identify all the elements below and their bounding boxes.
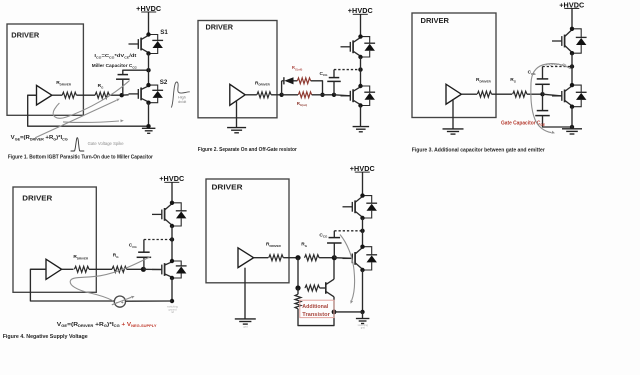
wire Q9 collector to gate node (fig5)	[333, 260, 335, 279]
+HVDC supply label (fig4)	[159, 174, 184, 183]
negative supply voltage source V1 (fig4)	[114, 296, 125, 307]
bottom IGBT Q8 (fig5) freewheeling diode	[363, 247, 378, 270]
wire RE to emitter return (fig5)	[298, 288, 334, 326]
wire amp output (fig3)	[461, 93, 477, 95]
gray current loop arrow (fig1)	[53, 81, 129, 119]
svg-text:+HVDC: +HVDC	[348, 6, 373, 15]
wire stub (fig5)	[304, 257, 306, 259]
wire midpoint rail (fig2)	[360, 57, 362, 86]
wire amp to ground (fig2)	[236, 100, 238, 127]
wire CCG top stub (fig4)	[143, 240, 145, 253]
wire CCG bottom to gate node (fig1)	[122, 79, 124, 95]
wire midpoint rail (fig5)	[362, 218, 364, 247]
gray return arrowhead (fig1)	[120, 119, 123, 122]
svg-text:Transistor: Transistor	[302, 312, 330, 318]
bottom IGBT Q4 (fig3)	[552, 86, 572, 106]
wire CCG bottom to gate wire (fig2)	[333, 81, 335, 94]
bottom IGBT Q2 (fig2)	[341, 87, 361, 105]
wire RG to gate node (fig4)	[127, 268, 144, 270]
wire RDRIVER to split node (fig2)	[271, 94, 282, 96]
gray arrowhead (fig3)	[551, 131, 555, 134]
label RDRIVER (fig4)	[73, 254, 89, 260]
label RG (fig5)	[301, 242, 307, 248]
driver IC box U1 (fig1)	[7, 24, 83, 115]
top IGBT Q3 (fig3)	[552, 30, 572, 53]
resistor RG (fig1)	[95, 92, 109, 98]
collector rail tap junction (fig1)	[146, 68, 150, 72]
label VGE equation red part (fig4)	[122, 322, 158, 328]
IGBT S2 (fig1) collector node	[146, 83, 150, 87]
resistor RDRIVER (fig3)	[477, 91, 491, 97]
diode D1 off-branch (fig2)	[282, 77, 294, 84]
svg-text:High: High	[178, 96, 186, 100]
gate voltage spike symbol (fig1)	[71, 138, 85, 151]
wire gate return loop (fig1)	[28, 95, 149, 126]
wire midpoint rail (fig3)	[571, 53, 573, 85]
label VGE equation black part (fig4)	[57, 322, 121, 328]
svg-text:RG: RG	[510, 77, 516, 83]
dashed wire CCG to half-bridge midpoint (fig2)	[334, 69, 361, 71]
label RDRIVER (fig5)	[266, 242, 282, 248]
driver IC box U5 (fig5)	[206, 179, 289, 283]
wire CCG bottom to gate node (fig5)	[333, 243, 335, 258]
svg-text:RDRIVER: RDRIVER	[56, 80, 72, 86]
top IGBT Q3 (fig3) collector node	[570, 27, 574, 31]
svg-text:DRIVER: DRIVER	[421, 16, 450, 25]
resistor RDRIVER (fig1)	[62, 92, 76, 98]
bottom IGBT Q6 (fig4) emitter node	[170, 276, 174, 280]
label CCG (fig2)	[320, 71, 329, 77]
gray current path arrow (fig3)	[531, 64, 571, 133]
label RG (fig1)	[98, 83, 104, 89]
dashed wire CCG to midpoint (fig4)	[144, 239, 172, 241]
wire emitter rail down (fig5)	[362, 270, 364, 312]
half-bridge midpoint junction (fig3)	[570, 64, 574, 68]
wire RDRIVER to RG (fig1)	[76, 94, 95, 96]
ground rail junction (fig1)	[146, 124, 150, 128]
wire RG to gate node (fig1)	[109, 94, 121, 96]
svg-text:VGE=(RDRIVER +RG)*ICG: VGE=(RDRIVER +RG)*ICG	[57, 322, 121, 328]
wire amp output (fig5)	[254, 257, 269, 259]
IGBT S1 (fig1)	[129, 35, 149, 52]
caption Figure 4	[3, 334, 88, 340]
wire gate node to CGE (fig3)	[542, 94, 544, 110]
additional transistor Q9 (fig5)	[326, 279, 334, 297]
label switching ground tiny (fig4)	[167, 305, 178, 315]
svg-text:S1: S1	[160, 29, 168, 36]
caption Figure 2	[198, 147, 298, 153]
svg-text:RG(off): RG(off)	[292, 65, 303, 71]
wire to power ground (fig5)	[362, 312, 364, 318]
power ground symbol (fig5)	[356, 319, 370, 324]
top IGBT Q1 (fig2) freewheeling diode	[361, 37, 376, 57]
label gnd tiny (fig5)	[243, 324, 248, 328]
label gnd tiny (fig5 right)	[358, 324, 369, 330]
top IGBT Q7 (fig5) emitter node	[360, 216, 364, 220]
wire bottom IGBT emitter to ground (fig2)	[360, 106, 362, 127]
resistor RGon (fig2)	[298, 92, 311, 98]
svg-text:RDRIVER: RDRIVER	[266, 242, 282, 248]
svg-text:RDRIVER: RDRIVER	[255, 80, 271, 86]
bottom IGBT Q6 (fig4)	[152, 262, 172, 277]
svg-text:DRIVER: DRIVER	[212, 182, 244, 191]
wire CCG top stub (fig3)	[542, 67, 544, 79]
wire amp to ground (fig5)	[244, 268, 246, 319]
driver IC box U2 (fig2)	[198, 21, 277, 118]
top IGBT Q3 (fig3) freewheeling diode	[572, 29, 587, 53]
wire emitter down to return (fig4)	[171, 278, 173, 301]
wire +HVDC to top IGBT (fig4)	[171, 182, 173, 202]
wire split node to RGon (fig2)	[282, 94, 298, 96]
power ground symbol (fig2)	[353, 127, 370, 132]
IGBT S2 (fig1) emitter node	[146, 101, 150, 105]
wire RB to transistor base (fig5)	[320, 287, 326, 289]
wire midpoint rail (fig4)	[171, 226, 173, 261]
svg-text:RG(on): RG(on)	[297, 101, 307, 107]
svg-text:Additional: Additional	[302, 304, 328, 310]
gray spike arrowhead (fig1)	[116, 99, 120, 102]
svg-text:dv/dt: dv/dt	[178, 100, 187, 104]
wire emitter to ground (fig3)	[571, 107, 573, 129]
wire amp output (fig1)	[52, 94, 62, 96]
DRIVER label (fig4)	[22, 194, 53, 203]
svg-text:DRIVER: DRIVER	[22, 194, 53, 203]
dashed wire CCG to midpoint (fig3)	[543, 66, 573, 68]
Miller capacitor CCG (fig1)	[116, 75, 130, 80]
emitter return junction (fig5)	[360, 310, 364, 314]
top IGBT Q5 (fig4) emitter node	[170, 224, 174, 228]
wire RDRIVER to RG (fig3)	[492, 93, 513, 95]
IGBT S1 (fig1) freewheeling diode	[149, 35, 164, 54]
label CCG (fig4)	[129, 243, 138, 249]
svg-text:CCG: CCG	[129, 243, 138, 249]
DRIVER label (fig2)	[206, 23, 234, 32]
label RG (fig4)	[113, 253, 119, 259]
label CCG (fig3)	[528, 70, 537, 76]
gray arrowhead (fig5)	[350, 300, 353, 304]
wire RGoff to gate node (fig2)	[311, 81, 323, 95]
parasitic capacitor CCG (fig3)	[535, 79, 550, 84]
svg-text:RDRIVER: RDRIVER	[73, 254, 89, 260]
caption Figure 1	[8, 155, 154, 161]
+HVDC supply label (fig2)	[348, 6, 373, 15]
top IGBT Q1 (fig2) emitter node	[358, 55, 362, 59]
svg-text:ICG=CCG*dVCE/dt: ICG=CCG*dVCE/dt	[94, 53, 136, 59]
dashed wire CCG to midpoint (fig5)	[334, 230, 362, 232]
wire RGon to cap node (fig2)	[312, 94, 334, 96]
svg-text:DRIVER: DRIVER	[11, 30, 39, 39]
half-bridge midpoint junction (fig5)	[360, 229, 364, 233]
Q9 emitter junction (fig5)	[332, 310, 337, 315]
label S1 (fig1)	[160, 29, 168, 36]
gate node junction (fig3)	[540, 92, 544, 96]
bottom IGBT Q8 (fig5)	[343, 248, 363, 270]
wire source to emitter rail (fig4)	[126, 300, 173, 302]
DRIVER label (fig5)	[212, 182, 244, 191]
top IGBT Q5 (fig4) freewheeling diode	[172, 203, 187, 226]
wire Q9 emitter down (fig5)	[333, 297, 335, 312]
emitter rail junction (fig3)	[570, 125, 574, 129]
top IGBT Q3 (fig3) emitter node	[570, 51, 574, 55]
svg-text:Gate Voltage Spike: Gate Voltage Spike	[88, 141, 125, 146]
wire +HVDC to top IGBT (fig2)	[360, 15, 362, 37]
label Gate Capacitor CGE (fig3)	[501, 121, 546, 127]
wire node A down to node B (fig5)	[297, 258, 299, 288]
svg-text:gnd: gnd	[243, 324, 248, 328]
bottom IGBT Q2 (fig2) freewheeling diode	[361, 86, 376, 106]
top IGBT Q7 (fig5)	[343, 196, 363, 217]
bottom IGBT Q8 (fig5) collector node	[360, 245, 364, 249]
svg-text:RG: RG	[98, 83, 104, 89]
label VGE equation (fig1)	[11, 135, 68, 141]
label RG (fig3)	[510, 77, 516, 83]
label dv/dt (fig1)	[178, 100, 187, 104]
wire amp input feedback (fig4)	[30, 268, 46, 270]
gray current loop arrow (fig4)	[70, 257, 150, 301]
wire amp input feedback (fig1)	[28, 94, 37, 96]
gate node junction (fig1)	[120, 93, 124, 97]
svg-text:Figure 1. Bottom IGBT Parasiti: Figure 1. Bottom IGBT Parasitic Turn-On …	[8, 155, 154, 161]
gray scribble over dashed wire (fig3)	[546, 64, 567, 66]
label Gate Voltage Spike (fig1)	[88, 141, 125, 146]
wire gate node to S2 gate (fig1)	[122, 94, 129, 96]
wire amp output (fig2)	[245, 94, 257, 96]
svg-text:+HVDC: +HVDC	[350, 164, 375, 173]
emitter return junction (fig4)	[170, 299, 174, 303]
wire Q9 emitter to rail (fig5)	[334, 311, 363, 313]
resistor RDRIVER (fig5)	[269, 255, 284, 261]
bottom IGBT Q4 (fig3) emitter node	[570, 105, 574, 109]
wire +HVDC to top IGBT (fig5)	[362, 172, 364, 195]
wire S2 emitter to ground (fig1)	[148, 103, 150, 127]
wire CCG top stub (fig5)	[333, 231, 335, 238]
resistor RDRIVER (fig4)	[74, 266, 89, 272]
svg-text:RG: RG	[301, 242, 307, 248]
top IGBT Q5 (fig4)	[152, 204, 172, 226]
wire diode to RGoff (fig2)	[294, 80, 298, 82]
gray arrow through source (fig4)	[112, 297, 131, 305]
op-amp buffer A5 (fig5)	[238, 248, 254, 268]
label S2 (fig1)	[160, 79, 168, 86]
bottom IGBT Q2 (fig2) collector node	[358, 84, 362, 88]
wire split node up to off-branch (fig2)	[281, 81, 283, 95]
bottom IGBT Q2 (fig2) emitter node	[358, 103, 362, 107]
CCG tap junction (fig2)	[332, 93, 336, 97]
op-amp buffer A3 (fig3)	[446, 84, 461, 104]
svg-text:+HVDC: +HVDC	[136, 4, 161, 13]
op-amp buffer A2 (fig2)	[230, 84, 245, 105]
label RDRIVER (fig2)	[255, 80, 271, 86]
base resistor RB (fig5)	[305, 285, 320, 291]
wire gate lead to bottom IGBT (fig3)	[543, 94, 562, 96]
parasitic capacitor CCG (fig2)	[327, 78, 341, 82]
bottom IGBT Q4 (fig3) freewheeling diode	[572, 85, 587, 107]
split node junction (fig2)	[279, 93, 283, 97]
caption Figure 3	[412, 147, 546, 153]
IGBT S1 (fig1) emitter node	[146, 51, 150, 55]
svg-text:+HVDC: +HVDC	[159, 174, 184, 183]
half-bridge midpoint junction (fig4)	[170, 237, 174, 241]
IGBT S1 (fig1) collector node	[146, 32, 150, 36]
gray return current arrow (fig1)	[63, 121, 119, 123]
+HVDC supply label (fig1)	[136, 4, 161, 13]
svg-text:Figure 2. Separate On and Off-: Figure 2. Separate On and Off-Gate resis…	[198, 147, 298, 153]
wire stub2 (fig5)	[304, 287, 306, 289]
IGBT S2 (fig1) freewheeling diode	[149, 85, 164, 103]
+HVDC supply label (fig3)	[559, 0, 584, 9]
label CCG (fig5)	[319, 232, 328, 238]
top IGBT Q5 (fig4) collector node	[170, 201, 174, 205]
label High (fig1)	[178, 96, 186, 100]
svg-text:Miller Capacitor CCG: Miller Capacitor CCG	[92, 63, 138, 69]
top IGBT Q7 (fig5) collector node	[360, 193, 364, 197]
red annotation box Additional Transistor (fig5)	[300, 300, 334, 318]
svg-text:gnd: gnd	[361, 326, 366, 329]
label Miller Capacitor CCG (fig1)	[92, 63, 138, 69]
wire amp output (fig4)	[62, 268, 74, 270]
wire gate lead to bottom IGBT (fig4)	[143, 268, 161, 270]
top IGBT Q1 (fig2) collector node	[358, 34, 362, 38]
resistor RGoff (fig2)	[297, 78, 310, 84]
driver ground symbol (fig3)	[443, 129, 464, 134]
wire CCG bottom to gate node (fig4)	[143, 257, 145, 269]
svg-text:S2: S2	[160, 79, 168, 86]
op-amp buffer A1 (fig1)	[37, 85, 52, 105]
svg-text:Figure 3. Additional capacitor: Figure 3. Additional capacitor between g…	[412, 147, 546, 153]
DRIVER label (fig1)	[11, 30, 39, 39]
node B junction (fig5)	[295, 285, 300, 290]
resistor RG (fig4)	[112, 266, 127, 272]
power ground symbol (fig3)	[562, 129, 582, 134]
gray current path arrow (fig5)	[340, 235, 355, 301]
wire CGE to emitter rail (fig3)	[543, 116, 573, 127]
gate capacitor CGE (fig3)	[535, 111, 550, 116]
resistor RG (fig3)	[513, 91, 527, 97]
wire +HVDC to top IGBT (fig3)	[571, 9, 573, 29]
wire gate lead to bottom IGBT (fig5)	[334, 257, 352, 260]
driver ground symbol (fig2)	[227, 128, 246, 133]
gate node junction (fig4)	[141, 267, 146, 272]
bottom IGBT Q6 (fig4) collector node	[170, 259, 174, 263]
resistor RDRIVER (fig2)	[257, 92, 271, 98]
svg-text:CCG: CCG	[319, 232, 328, 238]
wire +HVDC to S1 collector (fig1)	[148, 12, 150, 34]
wire RG to gate node (fig3)	[527, 93, 543, 95]
bottom IGBT Q6 (fig4) freewheeling diode	[172, 261, 187, 278]
driver IC box U4 (fig4)	[13, 187, 96, 292]
off-branch rejoin junction (fig2)	[320, 93, 324, 97]
wire RDRIVER to RG (fig4)	[89, 268, 112, 270]
wire CCG top to collector rail (fig1)	[123, 70, 149, 74]
node A junction (fig5)	[295, 255, 300, 260]
wire gate lead to bottom IGBT (fig2)	[334, 94, 350, 97]
wire RG to gate node (fig5)	[319, 257, 334, 259]
parasitic capacitor CCG (fig5)	[327, 238, 342, 243]
pulldown resistor RE (fig5)	[295, 294, 301, 309]
label RDRIVER (fig3)	[476, 77, 492, 83]
svg-text:CCG: CCG	[320, 71, 329, 77]
top IGBT Q1 (fig2)	[341, 37, 361, 56]
label RGoff (fig2)	[292, 65, 303, 71]
driver IC box U3 (fig3)	[412, 13, 496, 118]
half-bridge midpoint junction (fig2)	[358, 67, 362, 71]
label RGon (fig2)	[297, 101, 307, 107]
DRIVER label (fig3)	[421, 16, 450, 25]
resistor RG (fig5)	[305, 255, 320, 261]
wire RDRIVER to node A (fig5)	[283, 257, 298, 259]
gray arrowhead (fig4)	[131, 296, 135, 299]
bottom IGBT Q4 (fig3) collector node	[570, 83, 574, 87]
label RDRIVER (fig1)	[56, 80, 72, 86]
svg-text:DRIVER: DRIVER	[206, 23, 234, 32]
wire S1 emitter to S2 collector (fig1)	[148, 54, 150, 86]
op-amp buffer A4 (fig4)	[46, 259, 62, 279]
svg-text:RDRIVER: RDRIVER	[476, 77, 492, 83]
wire CCG bottom to gate node (fig3)	[542, 84, 544, 94]
svg-text:ref: ref	[171, 310, 174, 314]
label ICG equation (fig1)	[94, 53, 136, 59]
parasitic capacitor CCG (fig4)	[137, 252, 152, 257]
gate node junction (fig5)	[332, 255, 337, 260]
bottom IGBT Q8 (fig5) emitter node	[360, 268, 364, 272]
wire return loop to source (fig4)	[30, 269, 114, 301]
IGBT S2 (fig1)	[129, 86, 149, 102]
+HVDC supply label (fig5)	[350, 164, 375, 173]
gray spike pointer arrow (fig1)	[35, 100, 116, 138]
wire CCG top stub (fig2)	[333, 70, 335, 78]
svg-text:Figure 4. Negative Supply Volt: Figure 4. Negative Supply Voltage	[3, 334, 88, 340]
driver ground symbol (fig5)	[235, 319, 256, 324]
svg-text:RG: RG	[113, 253, 119, 259]
wire amp to ground (fig3)	[452, 99, 454, 129]
svg-text:+ VNEG-SUPPLY: + VNEG-SUPPLY	[122, 322, 158, 328]
high dv/dt waveform (fig1)	[171, 82, 190, 108]
ground symbol (fig1)	[142, 128, 156, 133]
top IGBT Q7 (fig5) freewheeling diode	[363, 196, 378, 218]
